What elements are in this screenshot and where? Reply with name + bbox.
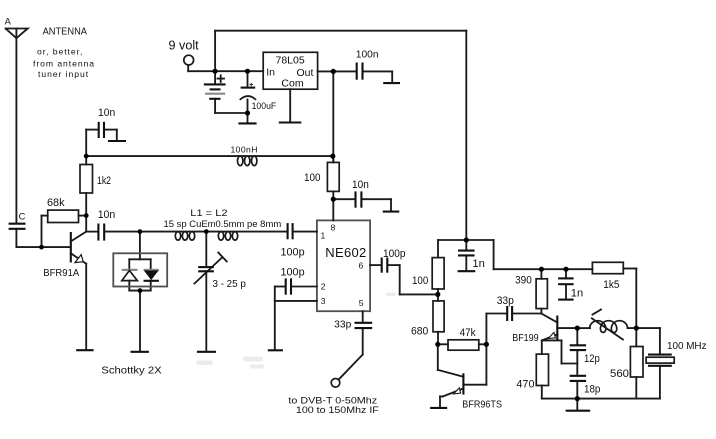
svg-text:100uF: 100uF: [252, 101, 277, 112]
svg-text:680: 680: [411, 326, 428, 338]
svg-text:12p: 12p: [584, 353, 600, 365]
svg-text:from antenna: from antenna: [33, 59, 95, 69]
svg-text:tuner input: tuner input: [38, 69, 89, 79]
svg-text:6: 6: [359, 261, 364, 271]
svg-text:1n: 1n: [571, 288, 583, 300]
svg-text:BFR91A: BFR91A: [43, 268, 79, 279]
svg-text:1n: 1n: [472, 258, 485, 270]
svg-text:100: 100: [304, 172, 321, 184]
svg-text:5: 5: [359, 298, 364, 308]
svg-text:NE602: NE602: [325, 245, 366, 260]
svg-text:78L05: 78L05: [276, 55, 305, 67]
svg-text:15 sp CuEm0.5mm pe 8mm: 15 sp CuEm0.5mm pe 8mm: [164, 219, 282, 229]
svg-text:10n: 10n: [352, 179, 369, 191]
svg-text:Schottky 2X: Schottky 2X: [101, 365, 161, 376]
svg-text:47k: 47k: [460, 327, 476, 339]
svg-text:390: 390: [515, 275, 532, 287]
svg-text:560: 560: [610, 368, 629, 380]
svg-text:33p: 33p: [334, 320, 351, 331]
svg-text:C: C: [19, 211, 26, 221]
svg-text:1: 1: [321, 231, 326, 241]
svg-text:BF199: BF199: [512, 333, 539, 344]
svg-text:100nH: 100nH: [231, 145, 258, 155]
svg-text:9 volt: 9 volt: [169, 39, 200, 53]
svg-text:to DVB-T 0-50Mhz: to DVB-T 0-50Mhz: [288, 395, 377, 405]
svg-text:100 to 150Mhz IF: 100 to 150Mhz IF: [296, 405, 379, 415]
svg-text:ANTENNA: ANTENNA: [43, 27, 88, 38]
svg-text:10n: 10n: [98, 209, 116, 221]
svg-text:Com: Com: [281, 77, 303, 89]
svg-text:BFR96TS: BFR96TS: [462, 400, 502, 411]
svg-text:2: 2: [321, 282, 326, 292]
svg-text:100: 100: [412, 275, 428, 287]
svg-text:L1 = L2: L1 = L2: [190, 208, 227, 218]
svg-text:100n: 100n: [356, 50, 379, 61]
svg-text:470: 470: [516, 378, 534, 390]
svg-text:3 - 25 p: 3 - 25 p: [213, 278, 246, 290]
svg-text:68k: 68k: [47, 197, 65, 209]
svg-text:In: In: [266, 66, 275, 78]
svg-text:1k5: 1k5: [603, 279, 619, 291]
svg-text:18p: 18p: [584, 384, 600, 396]
svg-text:100p: 100p: [383, 248, 406, 260]
svg-text:1k2: 1k2: [97, 175, 111, 187]
svg-text:A: A: [5, 16, 12, 26]
svg-text:33p: 33p: [497, 295, 514, 307]
svg-text:or, better,: or, better,: [37, 47, 83, 57]
svg-text:100 MHz: 100 MHz: [667, 341, 707, 352]
svg-text:100p: 100p: [281, 247, 305, 259]
svg-text:10n: 10n: [98, 107, 115, 119]
svg-text:3: 3: [321, 296, 326, 306]
svg-text:100p: 100p: [281, 266, 305, 278]
svg-text:8: 8: [331, 223, 336, 233]
